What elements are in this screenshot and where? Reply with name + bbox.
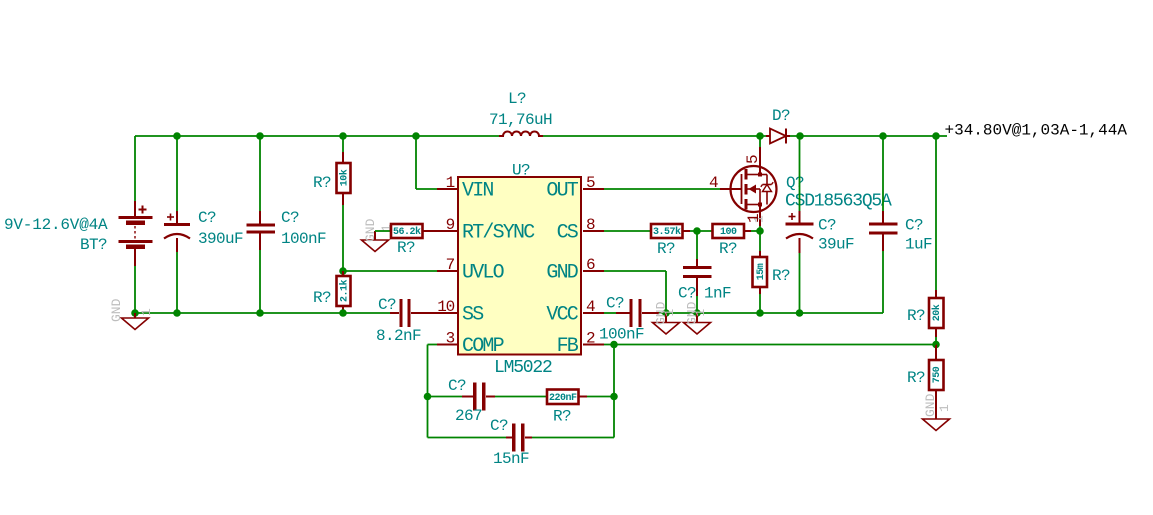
- wire drain to rail: [759, 136, 761, 147]
- svg-text:C?: C?: [905, 217, 923, 235]
- resistor R2 2.1k: [337, 271, 351, 313]
- svg-text:BT?: BT?: [80, 236, 107, 254]
- svg-text:5: 5: [744, 155, 762, 164]
- resistor R5 100: [713, 224, 752, 238]
- junction vin tap: [412, 132, 420, 140]
- wire comp top branch: [428, 396, 463, 398]
- svg-text:C?: C?: [448, 377, 466, 395]
- junction fb comp tap: [610, 341, 618, 349]
- svg-text:U?: U?: [512, 162, 530, 180]
- svg-text:UVLO: UVLO: [462, 262, 504, 285]
- junction 1uF top: [879, 132, 887, 140]
- junction output tap: [932, 132, 940, 140]
- svg-text:1: 1: [693, 309, 708, 317]
- ground battery: [109, 298, 154, 329]
- wire 100 to source node: [751, 230, 760, 232]
- ground vcc cap: [653, 301, 680, 334]
- svg-text:R?: R?: [313, 289, 331, 307]
- wire GND pin routing: [583, 270, 604, 272]
- wire FB net: [583, 344, 604, 346]
- svg-text:CSD18563Q5A: CSD18563Q5A: [785, 192, 892, 212]
- svg-text:1: 1: [745, 214, 763, 223]
- svg-text:C?: C?: [490, 417, 508, 435]
- wire comp right vertical: [613, 345, 615, 438]
- svg-text:L?: L?: [508, 90, 526, 108]
- svg-text:COMP: COMP: [462, 335, 504, 358]
- junction 100nF gnd: [256, 309, 264, 317]
- svg-text:C?: C?: [198, 209, 216, 227]
- wire 100nF bottom: [259, 250, 261, 313]
- junction 15m gnd: [756, 309, 764, 317]
- diode D?: [766, 129, 790, 144]
- svg-text:2.1k: 2.1k: [339, 280, 351, 303]
- svg-text:7: 7: [446, 256, 455, 274]
- wire comp bottom branch: [428, 437, 507, 439]
- svg-text:D?: D?: [772, 107, 790, 125]
- junction 39uF gnd: [796, 309, 804, 317]
- svg-text:10k: 10k: [339, 169, 351, 186]
- svg-text:RT/SYNC: RT/SYNC: [462, 222, 535, 245]
- resistor R9 220nF: [547, 390, 587, 405]
- svg-text:390uF: 390uF: [198, 230, 243, 248]
- node UVLO junction: [339, 267, 347, 275]
- junction comp left: [424, 393, 432, 401]
- wire 390uF top: [176, 136, 178, 211]
- op-amp U1 LM5022 body: [458, 177, 581, 355]
- svg-text:R?: R?: [719, 240, 737, 258]
- capacitor C? 1uF: [869, 136, 898, 313]
- wire 100nF top: [259, 136, 261, 211]
- wire 10k top: [342, 136, 344, 152]
- svg-text:VCC: VCC: [546, 304, 578, 327]
- svg-text:SS: SS: [462, 304, 484, 327]
- junction comp right: [610, 393, 618, 401]
- capacitor C? 390uF: [164, 211, 190, 252]
- capacitor C? 39uF: [786, 136, 814, 313]
- wire CS pin to 3.57k: [583, 230, 604, 232]
- wire 390uF bottom: [176, 252, 178, 313]
- svg-text:C?: C?: [678, 285, 696, 303]
- svg-text:4: 4: [709, 174, 718, 192]
- svg-text:R?: R?: [553, 408, 571, 426]
- svg-text:R?: R?: [907, 307, 925, 325]
- battery BT?: [119, 136, 153, 266]
- svg-text:GND: GND: [923, 393, 938, 417]
- junction 2.1k gnd: [339, 309, 347, 317]
- wire uvlo node to pin7: [343, 270, 437, 272]
- svg-text:9: 9: [446, 216, 455, 234]
- capacitor C? 8.2nF: [390, 299, 458, 327]
- svg-text:VIN: VIN: [462, 180, 493, 203]
- svg-text:1: 1: [937, 404, 952, 412]
- ground output divider: [923, 393, 953, 430]
- wire OUT to mosfet gate: [583, 188, 604, 190]
- junction source: [756, 227, 764, 235]
- svg-text:100nF: 100nF: [599, 326, 644, 344]
- svg-text:1uF: 1uF: [905, 236, 932, 254]
- wire battery to gnd rail: [134, 266, 136, 313]
- ground RT/SYNC: [362, 218, 395, 251]
- wire source to cs node: [759, 226, 761, 231]
- wire output divider drop: [935, 136, 937, 290]
- resistor R7 20k: [929, 290, 944, 337]
- capacitor C? 100nF input: [247, 211, 276, 250]
- svg-text:FB: FB: [557, 335, 579, 358]
- svg-text:71,76uH: 71,76uH: [489, 111, 552, 129]
- resistor R3 56.2k: [391, 224, 458, 238]
- svg-text:+34.80V@1,03A-1,44A: +34.80V@1,03A-1,44A: [945, 122, 1128, 140]
- svg-text:GND: GND: [546, 262, 577, 285]
- svg-text:Q?: Q?: [786, 174, 804, 192]
- capacitor C? 15nF: [506, 424, 532, 452]
- svg-text:56.2k: 56.2k: [393, 226, 421, 238]
- wire to cs filter node: [690, 230, 713, 232]
- svg-text:220nF: 220nF: [549, 393, 577, 404]
- svg-text:GND: GND: [109, 298, 124, 322]
- svg-text:20k: 20k: [931, 304, 943, 321]
- svg-text:LM5022: LM5022: [494, 358, 552, 378]
- wire 10k to uvlo node: [342, 205, 344, 271]
- wire COMP pin left: [437, 344, 458, 346]
- junction 100nF top: [256, 132, 264, 140]
- svg-text:10: 10: [437, 298, 454, 316]
- capacitor C? 100nF vcc: [583, 299, 666, 327]
- svg-text:15m: 15m: [756, 263, 767, 280]
- svg-text:C?: C?: [606, 295, 624, 313]
- svg-text:1nF: 1nF: [704, 285, 731, 303]
- svg-text:3.57k: 3.57k: [653, 226, 681, 238]
- svg-text:C?: C?: [378, 296, 396, 314]
- junction fb divider: [932, 341, 940, 349]
- svg-text:100nF: 100nF: [281, 230, 326, 248]
- junction 10k top: [339, 132, 347, 140]
- svg-text:9V-12.6V@4A: 9V-12.6V@4A: [4, 216, 108, 234]
- svg-text:CS: CS: [557, 222, 579, 245]
- svg-text:1: 1: [446, 174, 455, 192]
- wire top rail switch-node segment: [543, 135, 766, 137]
- svg-text:C?: C?: [281, 209, 299, 227]
- resistor R4 3.57k: [651, 224, 690, 238]
- svg-text:R?: R?: [772, 267, 790, 285]
- resistor R1 10k: [337, 152, 351, 205]
- transistor Q1 CSD18563Q5A: [731, 147, 777, 226]
- junction 390uF gnd: [173, 309, 181, 317]
- svg-text:267: 267: [455, 407, 482, 425]
- wire gnd rail right: [666, 312, 883, 314]
- junction battery gnd: [131, 309, 139, 317]
- svg-text:39uF: 39uF: [818, 236, 854, 254]
- wire gnd rail left: [135, 312, 390, 314]
- wire top rail input segment: [135, 135, 499, 137]
- svg-text:15nF: 15nF: [493, 450, 529, 468]
- wire 20k to fb node: [935, 337, 937, 345]
- svg-text:8.2nF: 8.2nF: [376, 327, 421, 345]
- junction 390uF top: [173, 132, 181, 140]
- wire 15nF to right vert: [532, 437, 614, 439]
- wire top rail output segment: [790, 135, 947, 137]
- svg-text:1: 1: [662, 309, 677, 317]
- svg-text:C?: C?: [818, 217, 836, 235]
- svg-text:1: 1: [139, 308, 154, 316]
- svg-text:R?: R?: [907, 369, 925, 387]
- capacitor C? 1nF: [683, 231, 712, 313]
- svg-text:R?: R?: [313, 174, 331, 192]
- wire vin drop: [415, 136, 417, 189]
- wire 220nF to right vert: [587, 396, 614, 398]
- resistor R6 15m: [753, 231, 768, 313]
- svg-text:R?: R?: [397, 239, 415, 257]
- junction cs filter: [693, 227, 701, 235]
- junction drain: [756, 132, 764, 140]
- resistor R8 750: [929, 345, 944, 420]
- wire gnd to 56.2k: [375, 230, 391, 232]
- capacitor C? 267: [462, 383, 495, 411]
- svg-text:OUT: OUT: [546, 180, 578, 203]
- svg-text:100: 100: [720, 227, 737, 238]
- junction diode cathode: [796, 132, 804, 140]
- junction vcc gnd: [662, 309, 670, 317]
- ground 1nF cap: [684, 301, 711, 334]
- inductor L?: [499, 132, 543, 137]
- junction 1nF gnd: [693, 309, 701, 317]
- wire to 220nF: [495, 396, 547, 398]
- svg-text:R?: R?: [657, 240, 675, 258]
- svg-text:750: 750: [932, 366, 943, 383]
